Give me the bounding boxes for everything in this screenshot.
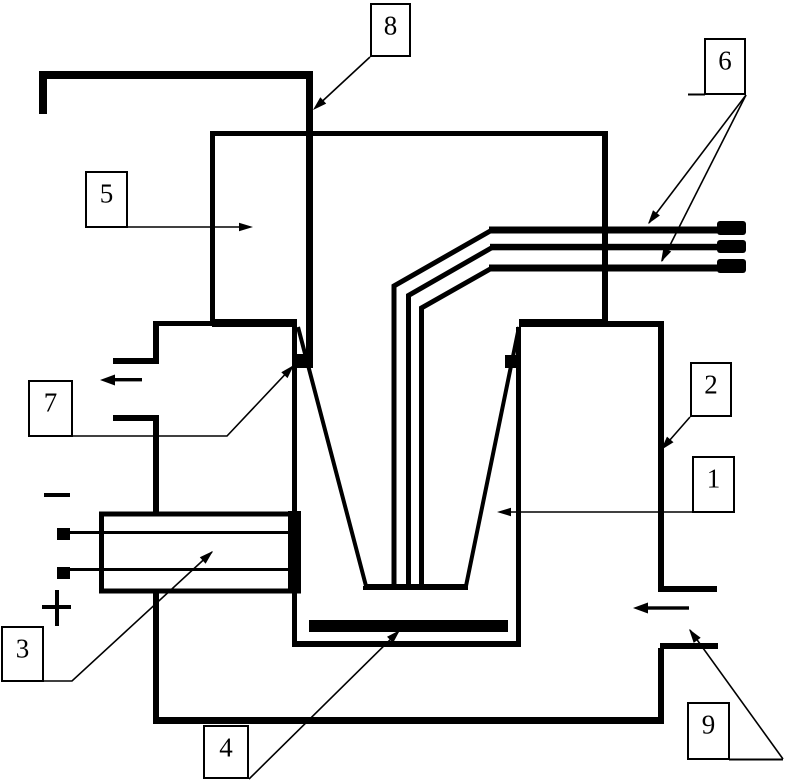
electrode lead 6 lower bend and vertical [422, 268, 493, 586]
leader to crucible (from box 1) [507, 511, 692, 513]
outer container 2 left wall lower segment [153, 586, 159, 722]
chamber bottom flange left [212, 319, 297, 327]
chamber bottom flange right [519, 319, 605, 327]
leader to inlet port (from box 9) [690, 630, 783, 759]
electrode lead 6 upper bend and vertical [394, 230, 492, 586]
gas outlet port 7 top stub [113, 358, 159, 364]
outer container 2 left wall middle segment [153, 415, 159, 514]
feed pipe 8 (vertical tube) [306, 71, 313, 364]
svg-text:2: 2 [704, 370, 718, 400]
svg-text:9: 9 [702, 710, 716, 740]
outer container 2 left wall upper segment [153, 321, 159, 363]
label box 1 [693, 457, 734, 512]
outer container 2 bottom wall [153, 717, 664, 724]
label box 4 [204, 726, 248, 778]
gas outlet flow arrow [112, 378, 142, 381]
label box 7 [29, 381, 72, 436]
svg-text:8: 8 [384, 11, 398, 41]
inner vessel bottom wall [292, 641, 521, 647]
leader to heater (from box 4) [249, 631, 399, 779]
label box 8 [371, 4, 410, 56]
svg-text:6: 6 [718, 46, 732, 76]
sight tube 3 body [102, 514, 299, 591]
electrode lead 6 lower horizontal [489, 265, 720, 272]
electrode lead 6 upper horizontal [489, 227, 720, 234]
heater plate 4 [309, 620, 508, 632]
leader to outer wall (from box 2) [662, 417, 690, 449]
electrode feedthrough wall (chamber right) [602, 133, 608, 327]
crucible bottom line [363, 586, 468, 590]
gas inlet flow arrow [646, 606, 689, 609]
growth chamber 5 left wall [210, 131, 215, 324]
gas inlet port 9 top stub [658, 586, 717, 592]
svg-text:1: 1 [707, 464, 721, 494]
contact square lower [57, 567, 70, 579]
crucible clamp left [294, 354, 313, 368]
leader to electrode upper (from box 6) [649, 95, 746, 223]
electrode terminal middle [717, 240, 746, 253]
svg-text:5: 5 [100, 179, 114, 209]
inner vessel right wall [516, 327, 521, 647]
svg-text:4: 4 [219, 733, 233, 763]
contact square upper [57, 528, 70, 540]
svg-text:3: 3 [16, 634, 30, 664]
outer container 2 right wall upper segment [658, 321, 664, 591]
crucible clamp right [505, 355, 519, 368]
electrode lead 6 middle bend and vertical [409, 247, 494, 586]
gas inlet port 9 bottom stub [660, 643, 718, 649]
label box 9 [688, 703, 729, 759]
growth chamber 5 top wall [210, 131, 608, 136]
outer container top edge left [154, 321, 212, 326]
minus polarity mark [44, 493, 70, 497]
leader to clamp (from box 7) [73, 366, 293, 436]
electrode terminal upper [717, 221, 746, 235]
label box 2 [691, 363, 731, 416]
leader to chamber 5 (from box 5) [128, 226, 243, 228]
sight tube wire lower [70, 568, 288, 571]
leader to sight tube (from box 3) [44, 552, 212, 681]
box 6 bottom extension line [688, 94, 705, 96]
leader to electrode lower (from box 6) [662, 95, 746, 261]
sight tube 3 end cap [288, 511, 301, 593]
gas outlet port 7 bottom stub [113, 415, 159, 421]
outer container 2 right wall lower segment [658, 648, 664, 724]
feed pipe top bracket [43, 75, 313, 114]
plus polarity mark [42, 605, 71, 609]
box 9 bottom extension line [729, 759, 783, 761]
inner vessel left wall [292, 327, 297, 647]
electrode lead 6 middle horizontal [490, 244, 720, 251]
svg-text:7: 7 [44, 388, 58, 418]
label box 5 [86, 172, 127, 227]
label box 3 [2, 627, 43, 681]
electrode terminal lower [717, 259, 746, 273]
sight tube wire upper [70, 531, 288, 534]
leader to pipe 8 (from box 8) [315, 57, 370, 108]
outer container top edge right [604, 321, 664, 327]
crucible 1 (trapezoid) [298, 327, 519, 586]
label box 6 [705, 39, 745, 94]
